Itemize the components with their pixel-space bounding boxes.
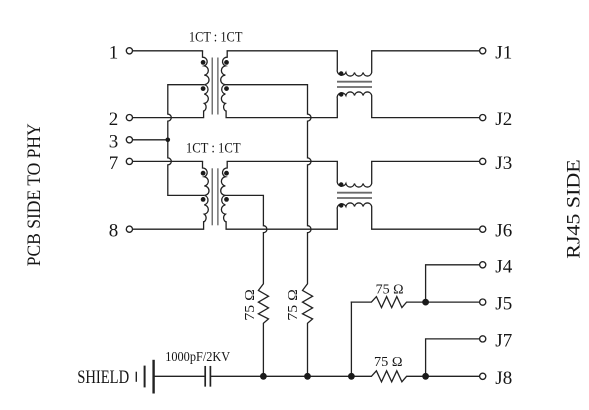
svg-text:J6: J6 — [495, 221, 512, 242]
svg-text:J4: J4 — [495, 256, 512, 277]
svg-text:J1: J1 — [495, 42, 512, 63]
svg-text:1: 1 — [109, 42, 119, 63]
svg-text:J5: J5 — [495, 294, 512, 315]
svg-text:75 Ω: 75 Ω — [374, 354, 403, 369]
svg-text:J8: J8 — [495, 368, 512, 389]
svg-text:1CT : 1CT: 1CT : 1CT — [186, 140, 241, 157]
svg-text:3: 3 — [109, 131, 119, 152]
svg-text:J2: J2 — [495, 109, 512, 130]
svg-text:SHIELD: SHIELD — [77, 367, 129, 388]
svg-text:75 Ω: 75 Ω — [286, 289, 301, 321]
svg-text:1CT : 1CT: 1CT : 1CT — [189, 29, 243, 46]
svg-text:J3: J3 — [495, 153, 512, 174]
svg-text:PCB SIDE TO PHY: PCB SIDE TO PHY — [24, 123, 45, 266]
svg-text:7: 7 — [109, 153, 119, 174]
svg-text:J7: J7 — [495, 330, 512, 351]
svg-text:1000pF/2KV: 1000pF/2KV — [165, 350, 230, 365]
svg-text:75 Ω: 75 Ω — [376, 281, 404, 296]
svg-text:2: 2 — [109, 109, 119, 130]
svg-text:8: 8 — [109, 221, 119, 242]
svg-text:RJ45 SIDE: RJ45 SIDE — [564, 159, 585, 259]
svg-text:75 Ω: 75 Ω — [243, 289, 258, 321]
